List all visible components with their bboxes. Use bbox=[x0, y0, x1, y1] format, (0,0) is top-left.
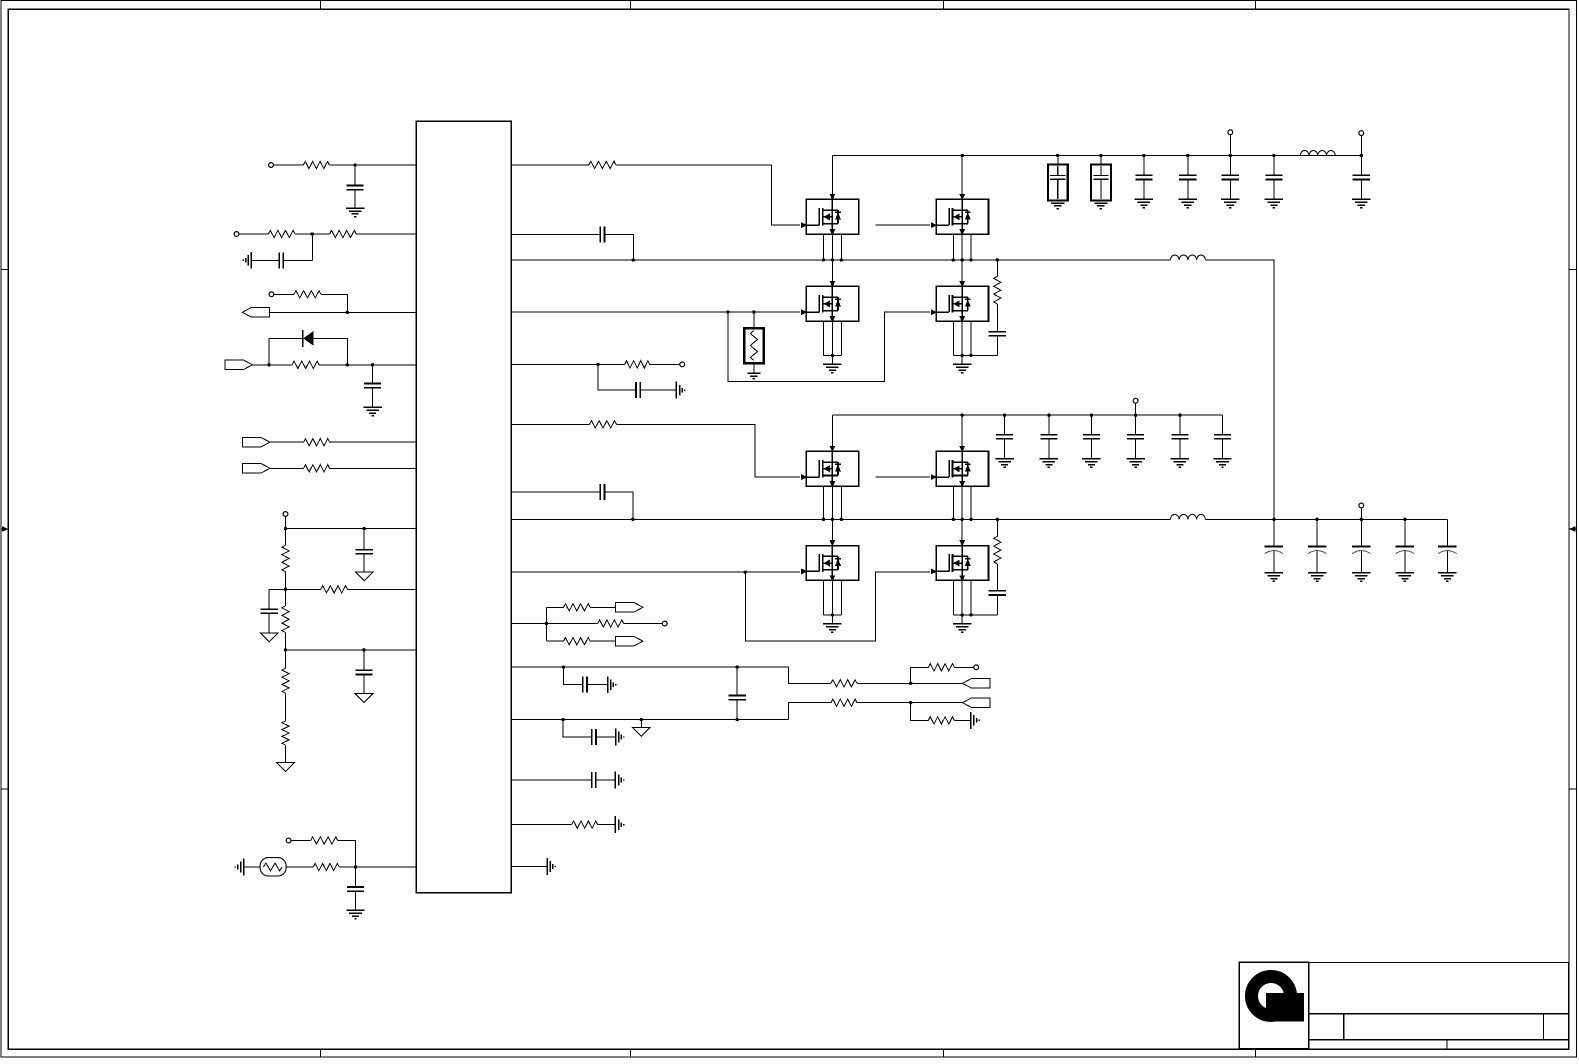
wire bbox=[605, 235, 634, 260]
node n61 bbox=[1272, 518, 1275, 521]
wire bbox=[1446, 551, 1448, 573]
capacitor C16 bulk bbox=[1048, 164, 1068, 200]
wire bbox=[640, 720, 642, 728]
wire bbox=[273, 164, 303, 166]
wire bbox=[1048, 439, 1050, 459]
wire bbox=[1360, 179, 1362, 199]
wire bbox=[1404, 519, 1406, 546]
node n17 bbox=[631, 518, 634, 521]
wire bbox=[511, 779, 591, 781]
ground bbox=[260, 633, 278, 642]
capacitor C4 bbox=[356, 549, 373, 551]
wire bbox=[789, 667, 832, 683]
crystal Y1 bbox=[260, 858, 286, 876]
wire bbox=[511, 719, 788, 721]
capacitor C23 snubber bbox=[989, 590, 1006, 592]
capacitor C30 polarized bbox=[1265, 545, 1283, 547]
wire bbox=[824, 614, 842, 616]
ground bbox=[1040, 458, 1058, 460]
wire bbox=[321, 294, 347, 312]
wire bbox=[274, 293, 294, 295]
node n43 bbox=[1272, 154, 1275, 157]
wire bbox=[338, 841, 356, 868]
terminal TP4 bbox=[283, 512, 288, 517]
inductor L1 bbox=[1170, 255, 1205, 260]
node n3 bbox=[346, 311, 349, 314]
wire bbox=[285, 572, 287, 590]
node n42 bbox=[1229, 154, 1232, 157]
wire bbox=[754, 311, 800, 313]
chassis ground bbox=[614, 772, 616, 789]
wire bbox=[363, 529, 365, 550]
node n23 bbox=[561, 718, 564, 721]
wire bbox=[511, 824, 571, 826]
IC U1 main controller bbox=[416, 121, 511, 893]
wire bbox=[996, 595, 998, 615]
border zone tick bottom 3 bbox=[943, 1049, 945, 1057]
capacitor C7 bbox=[347, 886, 364, 888]
wire bbox=[252, 364, 292, 366]
wire bbox=[961, 519, 963, 545]
ground bbox=[823, 363, 841, 365]
terminal VIN1 bbox=[1228, 130, 1233, 135]
resistor R20 bbox=[564, 638, 591, 645]
ground bbox=[355, 572, 373, 581]
wire bbox=[961, 234, 963, 260]
capacitor C3 bbox=[364, 382, 381, 384]
wire bbox=[285, 529, 287, 546]
node n15 bbox=[752, 310, 755, 313]
wire bbox=[511, 234, 600, 236]
ground bbox=[1308, 572, 1326, 574]
wire bbox=[840, 321, 842, 355]
wire bbox=[598, 364, 636, 390]
wire bbox=[857, 682, 963, 684]
wire bbox=[286, 866, 313, 868]
resistor R11 bbox=[282, 668, 289, 693]
wire bbox=[961, 580, 963, 615]
chassis ground bbox=[614, 816, 616, 833]
wire bbox=[831, 415, 833, 451]
wire bbox=[616, 165, 800, 225]
wire bbox=[270, 311, 417, 313]
wire bbox=[789, 703, 832, 720]
ground bbox=[1126, 458, 1144, 460]
resistor R24 bbox=[928, 717, 954, 724]
wire bbox=[1057, 156, 1059, 165]
title block divider 3 bbox=[1446, 1040, 1448, 1049]
resistor R1 bbox=[303, 161, 329, 168]
node n19 bbox=[545, 622, 548, 625]
wire phase rail 1 bbox=[511, 259, 1170, 261]
wire bbox=[823, 234, 825, 260]
wire bbox=[1360, 508, 1362, 519]
wire bbox=[347, 588, 416, 590]
wire bbox=[354, 165, 356, 185]
node n41 bbox=[1186, 154, 1189, 157]
wire bbox=[970, 580, 972, 615]
transistor Q6 bbox=[931, 446, 989, 487]
wire bbox=[996, 564, 998, 591]
capacitor C13 bbox=[591, 729, 593, 745]
terminal TP1 bbox=[269, 163, 274, 168]
wire bbox=[330, 441, 417, 443]
resistor R3 bbox=[330, 230, 357, 237]
terminal VIN2 bbox=[1359, 131, 1364, 136]
border zone tick bottom 4 bbox=[1255, 1049, 1257, 1057]
connector tag FB2 bbox=[963, 698, 990, 707]
wire bbox=[511, 363, 598, 365]
resistor R12 bbox=[282, 721, 289, 745]
border zone tick right q3 bbox=[1569, 788, 1577, 790]
border zone tick top 2 bbox=[630, 1, 632, 10]
node n1 bbox=[353, 163, 356, 166]
wire bbox=[511, 623, 546, 625]
terminal VOUT1 bbox=[1359, 503, 1364, 508]
wire bbox=[285, 633, 287, 650]
ground bbox=[823, 623, 841, 625]
wire input rail 2 bbox=[832, 414, 1222, 416]
chassis ground bbox=[546, 858, 548, 875]
capacitor C33 polarized bbox=[1396, 545, 1414, 547]
transistor Q2 bbox=[931, 194, 989, 235]
ground bbox=[1352, 572, 1370, 574]
border zone tick bottom 2 bbox=[630, 1049, 632, 1057]
wire bbox=[954, 719, 970, 721]
wire bbox=[1229, 179, 1231, 199]
ground bbox=[1135, 198, 1153, 200]
wire bbox=[840, 580, 842, 615]
node n6 bbox=[371, 363, 374, 366]
capacitor C14 bbox=[591, 772, 593, 788]
wire bbox=[546, 640, 563, 642]
wire bbox=[587, 684, 608, 686]
wire bbox=[284, 259, 313, 261]
resistor R9 bbox=[321, 586, 348, 593]
wire bbox=[831, 156, 833, 200]
node n64 bbox=[1403, 518, 1406, 521]
wire bbox=[911, 667, 929, 683]
wire bbox=[286, 528, 417, 530]
node n46 bbox=[831, 518, 834, 521]
wire bbox=[1229, 135, 1231, 156]
capacitor C34 polarized bbox=[1438, 545, 1456, 547]
wire bbox=[745, 572, 930, 641]
ground bbox=[1265, 572, 1283, 574]
wire bbox=[291, 840, 311, 842]
wire bbox=[251, 259, 279, 261]
terminal TP8 bbox=[974, 665, 979, 670]
wire bbox=[286, 649, 417, 651]
wire bbox=[286, 588, 321, 590]
wire bbox=[952, 321, 954, 355]
resistor R5 bbox=[292, 361, 319, 368]
node n21 bbox=[736, 665, 739, 668]
capacitor C15 snubber bbox=[989, 331, 1006, 333]
wire bbox=[1229, 156, 1231, 176]
chassis ground bbox=[970, 712, 972, 729]
transistor Q1 bbox=[801, 194, 859, 235]
node n29 bbox=[840, 258, 843, 261]
terminal VIN3 bbox=[1133, 398, 1138, 403]
capacitor C10 bbox=[599, 484, 601, 500]
wire bbox=[728, 312, 930, 381]
terminal TP7 bbox=[662, 621, 667, 626]
wire bbox=[1187, 179, 1189, 199]
resistor R16 bbox=[625, 361, 650, 368]
node n18 bbox=[744, 571, 747, 574]
wire bbox=[511, 311, 728, 313]
node n13 bbox=[632, 258, 635, 261]
node n35 bbox=[961, 354, 964, 357]
node n54 bbox=[969, 613, 972, 616]
border zone tick left q1 bbox=[1, 268, 8, 270]
wire bbox=[285, 516, 287, 528]
wire bbox=[1090, 439, 1092, 459]
ground bbox=[1094, 202, 1107, 204]
wire bbox=[954, 666, 973, 668]
resistor R10 bbox=[282, 606, 289, 633]
ground bbox=[363, 406, 381, 408]
node n56 bbox=[1003, 414, 1006, 417]
wire bbox=[831, 615, 833, 624]
resistor R13 bbox=[311, 837, 338, 844]
ground bbox=[995, 458, 1013, 460]
wire bbox=[831, 486, 833, 519]
chassis ground bbox=[615, 729, 617, 746]
wire bbox=[285, 693, 287, 721]
border zone tick left q3 bbox=[1, 788, 8, 790]
transistor Q3 bbox=[801, 281, 859, 322]
resistor R27 snubber bbox=[994, 536, 1001, 564]
node n10 bbox=[284, 648, 287, 651]
capacitor C5 bbox=[261, 608, 278, 610]
node n8 bbox=[363, 527, 366, 530]
node n38 bbox=[1056, 154, 1059, 157]
wire bbox=[1090, 415, 1092, 434]
connector tag PWM1 bbox=[242, 308, 269, 317]
wire bbox=[511, 491, 600, 493]
ground bbox=[346, 207, 364, 209]
node n44 bbox=[1360, 154, 1363, 157]
ground bbox=[1082, 458, 1100, 460]
resistor R19 bbox=[598, 620, 624, 627]
node n53 bbox=[961, 613, 964, 616]
border zone tick bottom 1 bbox=[320, 1049, 322, 1057]
ground bbox=[1213, 458, 1231, 460]
node n57 bbox=[1047, 414, 1050, 417]
wire bbox=[961, 260, 963, 287]
wire bbox=[355, 867, 357, 887]
connector tag SCL bbox=[243, 438, 270, 447]
capacitor C27 bbox=[1127, 434, 1144, 436]
wire bbox=[857, 702, 963, 704]
border zone tick right q1 bbox=[1569, 268, 1577, 270]
border zone tick top 1 bbox=[320, 1, 322, 10]
node n27 bbox=[822, 258, 825, 261]
ground bbox=[346, 909, 364, 911]
title block outline bbox=[1239, 962, 1568, 1049]
ground bbox=[1051, 202, 1064, 204]
wire bbox=[1316, 551, 1318, 573]
wire bbox=[745, 571, 800, 573]
wire bbox=[753, 363, 755, 373]
connector tag SDA bbox=[243, 464, 270, 473]
wire bbox=[970, 486, 972, 519]
ground bbox=[1179, 198, 1197, 200]
wire bbox=[1273, 156, 1275, 176]
resistor R26 snubber bbox=[994, 276, 1001, 304]
wire bbox=[605, 492, 633, 520]
wire bbox=[285, 650, 287, 668]
resistor R14 bbox=[313, 863, 339, 870]
node n51 bbox=[969, 518, 972, 521]
capacitor C31 polarized bbox=[1308, 545, 1326, 547]
wire bbox=[1404, 551, 1406, 573]
wire bbox=[952, 234, 954, 260]
node n47 bbox=[840, 518, 843, 521]
connector tag OUT2 bbox=[616, 637, 643, 646]
resistor R25 bbox=[572, 821, 598, 828]
resistor R21 bbox=[831, 680, 857, 687]
wire bbox=[1446, 519, 1448, 546]
wire bbox=[996, 260, 998, 277]
chassis ground bbox=[250, 252, 252, 269]
terminal TP5 bbox=[286, 838, 291, 843]
node n2 bbox=[311, 232, 314, 235]
capacitor C9 bbox=[635, 382, 637, 398]
wire bbox=[840, 234, 842, 260]
resistor R4 bbox=[294, 291, 321, 298]
wire bbox=[363, 650, 365, 670]
wire bbox=[1135, 439, 1137, 459]
wire bbox=[831, 519, 833, 545]
node n14 bbox=[726, 310, 729, 313]
wire bbox=[1187, 156, 1189, 176]
wire bbox=[831, 234, 833, 260]
wire bbox=[244, 866, 261, 868]
connector tag EN1 bbox=[225, 360, 252, 369]
wire bbox=[1004, 439, 1006, 459]
resistor R23 bbox=[831, 699, 857, 706]
wire bbox=[961, 615, 963, 624]
wire bbox=[270, 441, 304, 443]
node n20 bbox=[562, 665, 565, 668]
node n9 bbox=[284, 588, 287, 591]
wire bbox=[996, 336, 998, 356]
wire bbox=[640, 389, 676, 391]
wire bbox=[311, 234, 313, 260]
capacitor C26 bbox=[1083, 434, 1100, 436]
node n24 bbox=[640, 718, 643, 721]
wire bbox=[1335, 155, 1361, 157]
capacitor C18 bbox=[1135, 174, 1152, 176]
chassis ground bbox=[243, 859, 245, 876]
wire bbox=[268, 613, 270, 633]
resistor R7 bbox=[304, 465, 330, 472]
wire bbox=[1273, 551, 1275, 573]
chassis ground bbox=[607, 676, 609, 693]
terminal TP2 bbox=[234, 232, 239, 237]
wire bbox=[596, 736, 616, 738]
node n26 bbox=[909, 701, 912, 704]
node n63 bbox=[1360, 518, 1363, 521]
node n4 bbox=[267, 363, 270, 366]
wire bbox=[1273, 519, 1275, 546]
node n62 bbox=[1315, 518, 1318, 521]
wire bbox=[617, 424, 801, 477]
wire bbox=[511, 164, 589, 166]
diode D1 bbox=[303, 330, 314, 347]
wire bbox=[239, 233, 269, 235]
node n45 bbox=[822, 518, 825, 521]
wire bbox=[1222, 439, 1224, 459]
transistor Q7 bbox=[801, 540, 859, 581]
wire bbox=[961, 321, 963, 355]
wire bbox=[1360, 136, 1362, 156]
ground bbox=[1352, 198, 1370, 200]
wire bbox=[840, 486, 842, 519]
resistor R17 bbox=[590, 421, 617, 428]
border zone tick top 3 bbox=[943, 1, 945, 10]
wire bbox=[372, 388, 374, 408]
wire bbox=[831, 260, 833, 287]
wire bbox=[961, 415, 963, 451]
ground bbox=[355, 694, 373, 703]
wire bbox=[356, 233, 416, 235]
wire bbox=[363, 554, 365, 572]
capacitor C6 bbox=[355, 669, 372, 671]
wire bbox=[269, 338, 303, 364]
capacitor C24 bbox=[996, 434, 1013, 436]
wire bbox=[1179, 439, 1181, 459]
wire bbox=[269, 589, 285, 609]
node n33 bbox=[969, 258, 972, 261]
ground bbox=[1265, 198, 1283, 200]
wire bbox=[1360, 551, 1362, 573]
wire bbox=[624, 623, 663, 625]
wire bbox=[728, 311, 754, 313]
wire bbox=[831, 321, 833, 355]
thermistor RT1 bbox=[744, 312, 764, 363]
border centre arrow right bbox=[1569, 526, 1575, 532]
wire bbox=[1205, 518, 1447, 520]
wire bbox=[736, 667, 738, 695]
title block logo box bbox=[1239, 962, 1309, 1049]
node n40 bbox=[1142, 154, 1145, 157]
wire bbox=[1048, 415, 1050, 434]
node n36 bbox=[969, 354, 972, 357]
wire bbox=[1135, 403, 1137, 415]
wire bbox=[1143, 179, 1145, 199]
capacitor C21 bbox=[1265, 174, 1282, 176]
node n59 bbox=[1134, 414, 1137, 417]
node n7 bbox=[284, 527, 287, 530]
wire bbox=[911, 703, 929, 721]
node n37 bbox=[996, 258, 999, 261]
wire bbox=[546, 606, 563, 608]
wire bbox=[970, 234, 972, 260]
chassis ground bbox=[675, 382, 677, 399]
wire bbox=[736, 700, 738, 720]
capacitor C20 bbox=[1222, 174, 1239, 176]
wire bbox=[354, 190, 356, 208]
node n49 bbox=[952, 518, 955, 521]
capacitor C17 bulk bbox=[1091, 164, 1111, 200]
capacitor C12 bbox=[729, 694, 746, 696]
ground bbox=[633, 727, 651, 736]
wire bbox=[564, 667, 583, 685]
